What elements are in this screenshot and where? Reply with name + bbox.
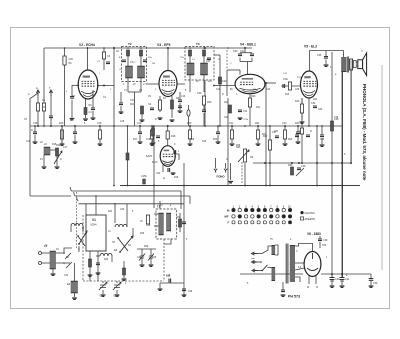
wire	[126, 204, 128, 227]
ground	[70, 119, 75, 120]
wire	[353, 67, 354, 69]
junction	[63, 262, 65, 264]
wire screen feed	[113, 48, 115, 186]
svg-text:R14: R14	[295, 100, 300, 103]
terminal	[39, 252, 42, 255]
junction	[331, 185, 333, 187]
junction	[167, 125, 169, 127]
junction	[114, 203, 116, 205]
ground	[73, 142, 78, 143]
wire	[331, 274, 333, 277]
junction	[260, 261, 262, 263]
mains terminal	[252, 269, 258, 272]
wire	[179, 92, 181, 100]
ground	[158, 289, 163, 290]
svg-text:C19: C19	[146, 139, 151, 141]
wire	[189, 126, 191, 130]
svg-text:R29: R29	[140, 233, 145, 235]
ground	[115, 295, 120, 296]
wire	[257, 126, 259, 130]
svg-text:C41: C41	[340, 281, 345, 283]
wire	[116, 281, 118, 283]
junction	[151, 125, 153, 127]
wire tuner feed 3	[79, 203, 185, 205]
capacitor on AVC bus	[138, 132, 142, 134]
capacitor C23b	[156, 136, 160, 138]
resistor R17b	[152, 128, 155, 136]
junction	[301, 162, 303, 164]
capacitor C15	[169, 279, 171, 283]
wire	[42, 252, 51, 254]
capacitor C4	[91, 108, 95, 110]
wire gang dashed short	[76, 192, 78, 248]
svg-text:V2 - ECH4: V2 - ECH4	[79, 43, 95, 47]
wire	[341, 280, 343, 285]
svg-text:R20: R20	[207, 101, 212, 104]
trimmer capacitor	[139, 254, 145, 261]
svg-text:APERTO: APERTO	[305, 217, 316, 221]
ground	[140, 120, 145, 121]
svg-text:R23: R23	[295, 122, 300, 125]
junction	[217, 125, 219, 127]
junction	[244, 47, 246, 49]
wire left vertical	[29, 98, 31, 196]
svg-text:R11: R11	[224, 101, 229, 104]
wire	[316, 126, 318, 186]
wire	[153, 126, 155, 208]
junction	[316, 125, 318, 127]
wire	[269, 126, 271, 186]
junction	[261, 270, 263, 272]
junction	[244, 125, 246, 127]
wire	[85, 115, 87, 119]
wire	[70, 226, 72, 232]
switch contact	[66, 262, 72, 268]
junction	[269, 185, 271, 187]
wire bus left down	[43, 48, 45, 103]
wire	[297, 135, 299, 141]
capacitor C8	[143, 60, 147, 62]
junction	[74, 125, 76, 127]
svg-text:R19: R19	[187, 122, 192, 125]
junction	[183, 185, 185, 187]
svg-text:6A70: 6A70	[152, 161, 158, 164]
svg-text:C21b: C21b	[243, 119, 249, 121]
wire	[154, 213, 159, 215]
resistor R28	[331, 121, 334, 131]
wire	[64, 48, 66, 126]
wire V1 down b	[97, 251, 99, 281]
svg-text:C18: C18	[120, 121, 125, 123]
wire V1 down a	[89, 251, 91, 281]
IF transformer T2 box	[122, 47, 147, 82]
svg-text:R15: R15	[52, 144, 57, 146]
resistor	[300, 128, 303, 134]
svg-text:C17: C17	[63, 147, 68, 149]
wire switch to primary	[268, 267, 272, 269]
svg-text:R26: R26	[288, 164, 293, 167]
wire	[255, 253, 262, 255]
svg-text:FONO: FONO	[217, 175, 226, 179]
page border	[11, 28, 390, 309]
wire top HT bus	[44, 47, 252, 49]
wire	[240, 52, 252, 54]
svg-text:C18: C18	[97, 122, 102, 125]
junction	[189, 47, 191, 49]
wire	[319, 242, 321, 248]
ground	[151, 143, 156, 144]
junction	[203, 47, 205, 49]
junction	[350, 162, 352, 164]
svg-text:C16: C16	[26, 141, 31, 143]
wire	[111, 256, 113, 262]
ground	[171, 173, 176, 174]
junction	[99, 125, 101, 127]
wire	[50, 149, 56, 151]
output transformer T4	[341, 57, 352, 73]
wire	[353, 60, 354, 62]
junction	[43, 125, 45, 127]
wire antenna down	[30, 93, 38, 98]
power transformer T5 secondary	[290, 245, 295, 282]
resistor R6b	[102, 52, 105, 59]
wire	[96, 255, 100, 257]
junction	[103, 85, 105, 87]
resistor R8	[171, 100, 174, 109]
ground	[55, 167, 60, 168]
wire V5 anode bus2	[309, 50, 343, 52]
potentiometer arrow	[54, 151, 62, 164]
ground	[300, 122, 305, 123]
junction	[341, 273, 343, 275]
svg-text:C45: C45	[152, 257, 157, 259]
junction	[265, 185, 267, 187]
wire V2 grid	[72, 84, 79, 86]
wire	[301, 98, 303, 104]
wire	[61, 126, 63, 145]
resistor in T3	[203, 50, 206, 56]
junction	[34, 125, 36, 127]
svg-text:F: F	[228, 221, 230, 225]
junction	[204, 47, 206, 49]
wire	[102, 281, 104, 283]
svg-text:R24: R24	[56, 144, 61, 147]
ground	[96, 273, 101, 274]
wire	[102, 290, 104, 294]
wire	[167, 126, 169, 146]
svg-text:MF: MF	[225, 215, 229, 219]
svg-text:C33: C33	[295, 89, 300, 91]
junction	[74, 125, 76, 127]
svg-text:C32: C32	[283, 79, 288, 81]
ground	[330, 286, 335, 287]
wire	[356, 65, 358, 67]
wire	[231, 126, 233, 130]
junction	[227, 47, 229, 49]
wire	[127, 56, 129, 66]
ground	[60, 144, 65, 145]
wire	[52, 269, 54, 273]
junction	[113, 185, 115, 187]
svg-text:R16: R16	[59, 122, 64, 125]
resistor R17c	[126, 153, 129, 160]
svg-text:C15b: C15b	[141, 175, 147, 178]
svg-text:R10: R10	[251, 95, 256, 98]
phono terminal fork	[214, 169, 217, 173]
ground	[158, 118, 163, 119]
switch position legend	[225, 204, 316, 224]
wire	[116, 290, 118, 294]
junction	[331, 273, 333, 275]
capacitor C26	[297, 168, 301, 170]
coil T3 secondary	[201, 63, 208, 75]
svg-text:1M: 1M	[250, 157, 253, 159]
ground	[283, 144, 288, 145]
svg-text:C26: C26	[69, 58, 74, 61]
wire	[141, 114, 143, 119]
junction	[341, 162, 343, 164]
wire	[341, 63, 343, 277]
wire	[203, 105, 205, 110]
wire	[139, 135, 141, 141]
capacitor C7	[122, 60, 126, 62]
wire AVC bus	[30, 125, 342, 127]
wire	[152, 136, 154, 142]
wire	[74, 135, 76, 141]
junction	[244, 47, 246, 49]
wire	[171, 96, 173, 100]
wire	[240, 61, 252, 63]
junction	[341, 185, 343, 187]
capacitor	[295, 135, 299, 137]
wire	[139, 126, 141, 132]
svg-text:C13: C13	[100, 295, 105, 298]
ground	[119, 112, 124, 113]
ground	[324, 65, 329, 66]
wire	[180, 191, 182, 209]
rectifier V6 cathode legs	[307, 276, 318, 287]
svg-text:C23: C23	[282, 122, 287, 125]
ground	[296, 142, 301, 143]
junction	[231, 125, 233, 127]
resistor in T2	[127, 50, 130, 56]
wire into V1 top	[85, 204, 87, 215]
wire	[34, 126, 36, 132]
svg-text:R22: R22	[288, 139, 293, 141]
ground	[91, 118, 96, 119]
wire	[141, 249, 143, 256]
variable capacitor C14	[113, 282, 121, 290]
ground	[188, 144, 193, 145]
svg-text:C12: C12	[243, 111, 248, 113]
ground	[88, 275, 93, 276]
wire	[219, 55, 221, 126]
svg-text:C38: C38	[334, 117, 339, 119]
resistor on AVC bus	[188, 130, 191, 139]
wire V4 anode	[244, 48, 246, 53]
wire	[179, 213, 181, 219]
junction	[231, 125, 233, 127]
wire	[256, 270, 262, 272]
coil T2 secondary	[138, 66, 145, 78]
wire	[175, 154, 179, 160]
wire	[152, 126, 154, 128]
junction	[63, 252, 65, 254]
ground	[42, 167, 47, 168]
coil T2 primary	[126, 66, 133, 78]
resistor R6	[63, 56, 66, 65]
capacitor C3	[70, 97, 74, 99]
capacitor C1	[49, 116, 53, 118]
svg-text:C40: C40	[335, 278, 340, 281]
svg-text:C19: C19	[137, 122, 142, 125]
junction	[77, 235, 79, 237]
wire faint crease	[381, 65, 383, 270]
wire	[370, 281, 372, 285]
wire tuner feed 2	[76, 195, 191, 197]
wire	[171, 109, 173, 118]
junction	[113, 47, 115, 49]
wire	[123, 261, 125, 268]
ground	[238, 118, 243, 119]
ground	[230, 144, 235, 145]
wire V2 cathode	[85, 99, 87, 108]
wire	[189, 139, 191, 143]
wire gang dashed	[83, 280, 164, 282]
wire	[132, 228, 134, 236]
wire centre tap down	[282, 282, 284, 290]
band switch	[118, 238, 128, 251]
oscillator transformer T1 box	[156, 209, 177, 239]
svg-text:R14: R14	[313, 99, 318, 101]
junction	[244, 185, 246, 187]
coil loops 3	[100, 253, 112, 256]
wire ground bus	[120, 185, 360, 187]
resistor R25 volume	[243, 149, 246, 162]
svg-text:C20: C20	[222, 80, 227, 83]
svg-text:C27: C27	[130, 99, 135, 102]
wire	[78, 246, 80, 252]
svg-text:R19: R19	[190, 139, 195, 141]
wire	[356, 61, 358, 63]
ground	[228, 182, 233, 183]
wire	[134, 92, 136, 126]
junction	[321, 125, 323, 127]
wire	[103, 48, 105, 52]
wire V5 anode	[308, 51, 310, 72]
resistor R1	[36, 103, 39, 111]
wire	[103, 59, 105, 70]
wire	[319, 236, 321, 239]
wire V4 diode	[214, 85, 235, 87]
wire	[188, 105, 190, 110]
wire	[34, 135, 36, 141]
junction	[167, 47, 169, 49]
svg-text:C41: C41	[345, 278, 350, 281]
resistor R34	[179, 219, 182, 227]
ground	[138, 142, 143, 143]
svg-text:R13: R13	[285, 94, 290, 96]
wire	[127, 126, 129, 186]
wire	[189, 75, 191, 92]
wire	[325, 60, 327, 65]
transformer core	[286, 244, 288, 284]
switch arrow	[79, 231, 87, 244]
junction	[298, 162, 300, 164]
junction	[264, 162, 266, 164]
wire	[227, 98, 229, 186]
wire	[226, 70, 228, 96]
wire	[239, 58, 241, 62]
wire	[56, 252, 65, 254]
tube V4 EBL1	[235, 74, 265, 93]
wire left ground return	[30, 195, 71, 197]
capacitor C33	[283, 84, 285, 88]
capacitor C12	[238, 110, 242, 112]
junction	[269, 162, 271, 164]
tube V1 UCH4 box	[86, 215, 106, 251]
terminal T	[49, 90, 52, 96]
svg-text:R31: R31	[108, 211, 113, 213]
IF transformer T3 box	[185, 47, 214, 81]
svg-text:C16: C16	[33, 122, 38, 125]
svg-text:C30: C30	[233, 50, 238, 53]
svg-text:R32: R32	[104, 259, 109, 261]
wire HT return bus right	[321, 273, 371, 275]
wire	[56, 262, 71, 264]
wire	[179, 103, 181, 110]
wire	[42, 262, 51, 264]
wire	[217, 126, 219, 132]
svg-text:C20: C20	[224, 117, 229, 119]
svg-text:UCH4: UCH4	[90, 224, 97, 227]
capacitor C27	[275, 136, 279, 138]
wire	[204, 80, 206, 126]
capacitor on AVC bus	[296, 132, 300, 134]
wire	[249, 94, 251, 127]
wire tuner feed 1	[72, 190, 181, 192]
tube V2 ECH4	[78, 70, 98, 99]
svg-text:6A70: 6A70	[146, 154, 153, 158]
resistor R13	[288, 82, 291, 90]
svg-text:PHONOLA (S.A. FIMI) - Mod. 573: PHONOLA (S.A. FIMI) - Mod. 573, alcune n…	[362, 84, 367, 181]
junction	[87, 47, 89, 49]
capacitor C41	[340, 278, 345, 280]
wire bend up	[70, 187, 72, 191]
svg-text:C40: C40	[330, 281, 335, 283]
junction	[113, 125, 115, 127]
resistor on AVC bus	[230, 130, 233, 139]
ground	[98, 144, 103, 145]
svg-text:R18: R18	[174, 177, 179, 179]
junction	[189, 125, 191, 127]
wire	[370, 274, 372, 278]
wire	[301, 113, 303, 120]
capacitor C7b	[119, 103, 123, 105]
wire	[203, 75, 205, 92]
wire	[74, 293, 76, 297]
wire	[43, 111, 45, 126]
wire to ground	[230, 163, 232, 180]
coil small	[187, 110, 190, 116]
wire	[150, 258, 152, 264]
wire	[140, 78, 142, 92]
junction	[119, 251, 121, 253]
wire secondary tap	[295, 262, 305, 264]
junction	[269, 125, 271, 127]
resistor R10	[248, 98, 251, 107]
ground	[122, 279, 127, 280]
